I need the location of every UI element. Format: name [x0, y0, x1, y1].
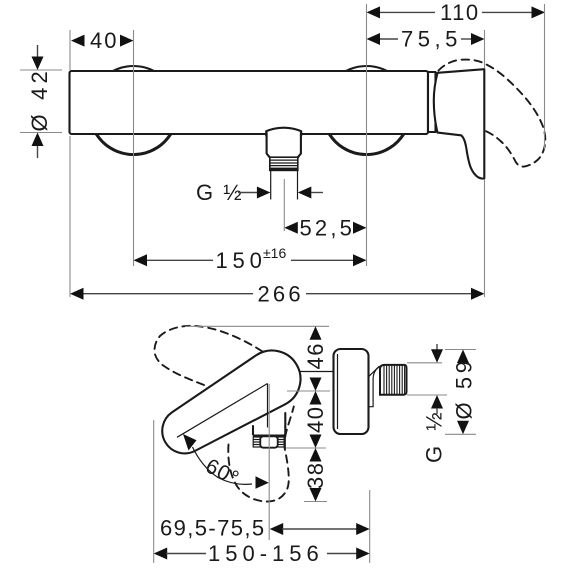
svg-text:52,5: 52,5 — [300, 215, 356, 240]
dim 40 (chain) — [303, 391, 328, 448]
right escutcheon circle — [322, 66, 411, 155]
swing arc dashed — [228, 407, 294, 502]
svg-text:266: 266 — [258, 281, 304, 306]
svg-text:40: 40 — [90, 28, 118, 53]
svg-text:40: 40 — [303, 406, 328, 433]
dim 150 +-16 — [134, 245, 367, 273]
svg-text:110: 110 — [440, 0, 480, 25]
wall plate (side) — [334, 349, 369, 434]
cartridge axis line — [299, 371, 334, 373]
bar left extension — [69, 30, 71, 70]
60 degree leader arc — [193, 447, 253, 484]
dim 40 — [71, 28, 134, 53]
lever handle (side view, solid) — [162, 351, 300, 454]
outlet centreline — [283, 179, 285, 231]
svg-text:38: 38 — [303, 462, 328, 489]
svg-text:150-156: 150-156 — [208, 541, 324, 566]
outlet nut + threads (side) — [253, 435, 285, 449]
connector ring between body and handle — [428, 72, 436, 132]
lever dashed (side view, up position) — [155, 326, 263, 388]
svg-text:G ½: G ½ — [196, 180, 244, 205]
dim dia 59 (right) — [445, 350, 477, 435]
dim 75,5 — [367, 27, 485, 52]
dim 69,5-75,5 — [160, 516, 370, 541]
svg-text:46: 46 — [303, 342, 328, 369]
dim G 1/2 (bottom view, right) — [407, 344, 447, 463]
extension: wall plane — [369, 490, 371, 563]
dim dia 42 (vertical, left) — [20, 45, 62, 158]
svg-text:69,5-75,5: 69,5-75,5 — [160, 516, 266, 541]
lever inner crease lines — [177, 384, 268, 438]
wall plate inner edge — [337, 354, 339, 429]
dim 266 — [70, 281, 485, 306]
outlet body below bar — [267, 133, 301, 157]
extension: lever tip plane — [153, 420, 155, 563]
outlet pipe stub — [271, 171, 298, 200]
dim 150-156 — [154, 541, 370, 566]
dim 52,5 — [284, 215, 366, 240]
svg-text:Ø 42: Ø 42 — [27, 67, 52, 132]
dim 110 — [367, 0, 546, 25]
dim G 1/2 (top view) — [196, 180, 323, 205]
ext line y501.5 — [304, 501, 327, 503]
outlet boss (side) — [253, 413, 285, 435]
leader arrow to lever — [183, 434, 197, 451]
outlet dome — [266, 128, 301, 136]
ext line y448 — [286, 447, 326, 449]
handle right extension — [484, 30, 486, 68]
svg-text:75,5: 75,5 — [401, 27, 462, 52]
ext line dashed-lever top — [185, 325, 329, 327]
outlet thread G1/2 — [270, 157, 298, 170]
right circle centreline — [366, 4, 368, 266]
handle (front view, lever down) — [434, 69, 485, 178]
dashed lever max reach extension — [544, 4, 546, 149]
svg-text:±16: ±16 — [263, 245, 286, 261]
leader arrow to centreline — [256, 476, 269, 489]
svg-text:Ø 59: Ø 59 — [452, 357, 477, 419]
mixer body bar — [70, 71, 429, 134]
dim 46 — [303, 326, 328, 391]
nipple transition — [369, 366, 381, 407]
centreline (bottom view vertical) — [268, 384, 270, 540]
nipple thread G1/2 (side) — [380, 365, 407, 395]
dim 38 (chain) — [303, 448, 328, 502]
ext line y391 — [287, 390, 330, 392]
left escutcheon circle — [89, 66, 178, 155]
outlet mask — [265, 128, 302, 171]
svg-text:150: 150 — [216, 248, 267, 273]
svg-text:G ½: G ½ — [422, 408, 447, 463]
left circle centreline — [133, 30, 135, 266]
handle lever dashed (swung position, front view) — [439, 60, 546, 167]
